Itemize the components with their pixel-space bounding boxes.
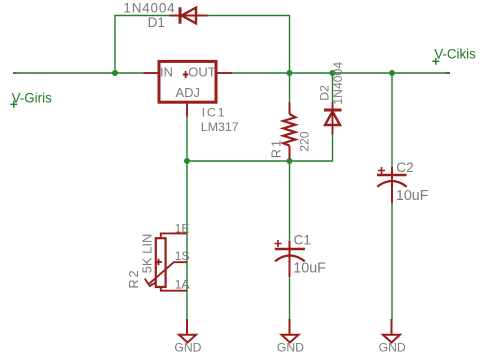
svg-text:GND: GND xyxy=(174,340,201,354)
wire D1 cathode to output column xyxy=(208,16,290,74)
node V-Cikis cross xyxy=(432,58,439,65)
wire end tip right xyxy=(446,72,450,74)
wire output to R1 top xyxy=(289,73,291,103)
pin IC1 IN xyxy=(144,72,158,74)
svg-text:10uF: 10uF xyxy=(396,188,429,204)
svg-text:1N4004: 1N4004 xyxy=(331,62,345,105)
wire output to C2 xyxy=(391,73,393,167)
resistor R1 xyxy=(283,103,295,160)
wire D2 top xyxy=(332,73,334,102)
wire input net left segment xyxy=(13,72,144,74)
ground symbol pot xyxy=(179,319,196,343)
junction ADJ R1 C1 xyxy=(287,158,293,164)
junction output C2 xyxy=(389,70,395,76)
wire end tip left xyxy=(13,72,17,74)
svg-text:5K LIN: 5K LIN xyxy=(139,234,154,274)
svg-text:C2: C2 xyxy=(396,160,413,175)
svg-text:1N4004: 1N4004 xyxy=(123,1,175,16)
capacitor C2 xyxy=(377,167,407,203)
wire output net xyxy=(232,72,450,74)
wire input net up to D1 xyxy=(115,16,170,74)
svg-text:ADJ: ADJ xyxy=(176,85,201,100)
ground symbol C1 xyxy=(282,319,299,343)
svg-text:OUT: OUT xyxy=(188,65,216,80)
svg-text:R1: R1 xyxy=(270,138,284,158)
svg-text:GND: GND xyxy=(277,340,304,354)
svg-text:V-Cikis: V-Cikis xyxy=(434,47,476,62)
pin R2 1E xyxy=(161,233,187,237)
wire pot column to GND xyxy=(186,161,188,321)
wire C1 to GND xyxy=(289,277,291,321)
capacitor C1 xyxy=(275,240,305,277)
ground symbol C2 xyxy=(383,319,400,343)
wire ADJ net xyxy=(187,117,333,162)
pin IC1 ADJ xyxy=(186,104,188,117)
pin IC1 OUT xyxy=(217,72,232,74)
svg-text:V-Giris: V-Giris xyxy=(12,90,52,105)
svg-text:IC1: IC1 xyxy=(202,105,227,119)
junction input xyxy=(112,70,118,76)
svg-text:1A: 1A xyxy=(175,278,191,292)
junction output D2 xyxy=(330,70,336,76)
pin R2 wiper 1S xyxy=(150,262,188,283)
svg-text:10uF: 10uF xyxy=(293,261,326,277)
pin R2 1A xyxy=(161,288,187,291)
svg-text:D1: D1 xyxy=(148,15,165,30)
svg-text:C1: C1 xyxy=(294,233,311,248)
svg-text:GND: GND xyxy=(379,340,406,354)
svg-text:LM317: LM317 xyxy=(201,120,239,134)
diode D2 xyxy=(324,102,342,135)
potentiometer R2 body xyxy=(156,238,166,287)
wire ADJ to C1 xyxy=(289,161,291,241)
R2 origin cross xyxy=(155,259,162,265)
node V-Giris cross xyxy=(10,101,17,108)
svg-text:1S: 1S xyxy=(175,249,190,263)
junction ADJ pot xyxy=(184,158,190,164)
wire C2 to GND xyxy=(391,203,393,321)
svg-text:IN: IN xyxy=(160,65,173,80)
svg-text:1E: 1E xyxy=(175,221,190,235)
IC1 origin cross xyxy=(183,71,189,78)
svg-text:220: 220 xyxy=(297,131,311,152)
svg-text:D2: D2 xyxy=(317,85,331,101)
diode D1 xyxy=(170,7,208,23)
IC IC1 LM317 regulator box xyxy=(159,61,216,102)
junction output R1 xyxy=(287,70,293,76)
R2 wiper arrow xyxy=(145,279,156,286)
